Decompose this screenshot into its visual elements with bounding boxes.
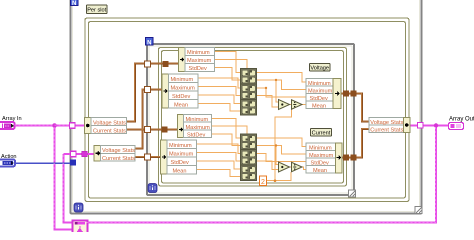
svg-text:Mean: Mean <box>173 168 187 174</box>
svg-text:Maximum: Maximum <box>169 151 194 157</box>
svg-text:Current: Current <box>312 131 331 137</box>
svg-text:Minimum: Minimum <box>309 145 332 151</box>
svg-text:Maximum: Maximum <box>186 125 211 131</box>
svg-text:Array Out: Array Out <box>449 117 474 123</box>
svg-text:Voltage: Voltage <box>310 66 329 72</box>
svg-text:Voltage Stats: Voltage Stats <box>93 120 126 126</box>
svg-text:Minimum: Minimum <box>187 50 210 56</box>
svg-text:StdDev: StdDev <box>187 132 206 138</box>
svg-text:Minimum: Minimum <box>171 77 194 83</box>
svg-text:Current Stats: Current Stats <box>370 127 403 133</box>
svg-text:StdDev: StdDev <box>172 94 191 100</box>
svg-text:Maximum: Maximum <box>309 153 334 159</box>
svg-text:Minimum: Minimum <box>308 81 331 87</box>
svg-text:Maximum: Maximum <box>308 88 333 94</box>
svg-text:N: N <box>72 1 76 7</box>
svg-text:Minimum: Minimum <box>186 117 209 123</box>
svg-text:2: 2 <box>261 179 265 186</box>
svg-text:Current Stats: Current Stats <box>102 156 135 162</box>
svg-text:Voltage Stats: Voltage Stats <box>370 120 403 126</box>
svg-text:Voltage Stats: Voltage Stats <box>102 148 135 154</box>
svg-text:Minimum: Minimum <box>169 143 192 149</box>
svg-text:Mean: Mean <box>312 103 326 109</box>
svg-text:Current Stats: Current Stats <box>93 128 126 134</box>
svg-text:N: N <box>147 40 151 46</box>
svg-text:Maximum: Maximum <box>171 85 196 91</box>
svg-text:StdDev: StdDev <box>310 96 329 102</box>
svg-text:Per slot: Per slot <box>87 8 106 14</box>
svg-text:Mean: Mean <box>174 102 188 108</box>
svg-text:Mean: Mean <box>313 168 327 174</box>
svg-text:StdDev: StdDev <box>171 160 190 166</box>
svg-text:StdDev: StdDev <box>311 160 330 166</box>
svg-text:Maximum: Maximum <box>187 58 212 64</box>
svg-text:StdDev: StdDev <box>189 66 208 72</box>
